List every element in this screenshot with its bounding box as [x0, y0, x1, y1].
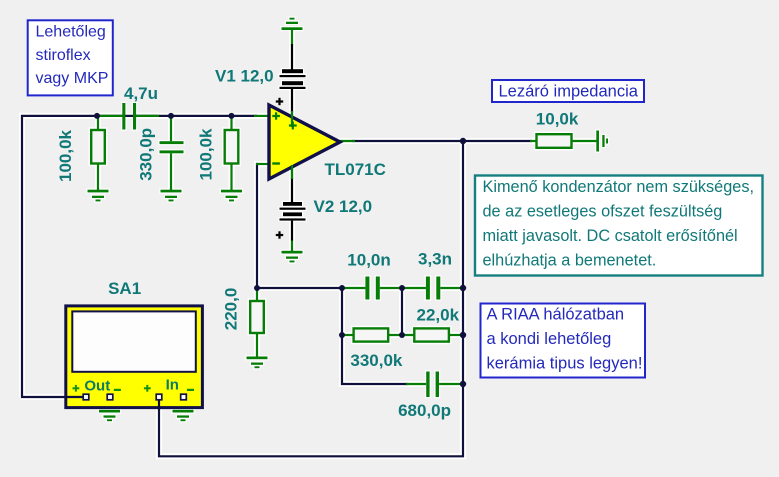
- ground below SA1 Out: [99, 410, 120, 421]
- capacitor C2 330,0p: [160, 141, 184, 153]
- note box 4 (A RIAA hálózatban...): [481, 304, 646, 378]
- wire green C2 stubs: [170, 116, 172, 141]
- svg-text:22,0k: 22,0k: [417, 306, 460, 325]
- svg-text:TL071C: TL071C: [325, 160, 386, 179]
- svg-text:SA1: SA1: [108, 279, 141, 298]
- wire out+ horizontal: [21, 396, 83, 398]
- resistor R6 10,0k: [537, 134, 572, 148]
- svg-text:A RIAA hálózatban: A RIAA hálózatban: [487, 306, 625, 324]
- wire in+ inside SA1: [158, 397, 160, 410]
- resistor R1 100,0k: [91, 130, 105, 164]
- capacitor C1 4,7u: [122, 103, 136, 130]
- wire inverting input vertical: [257, 164, 258, 288]
- note box 3 (Kimenő kondenzátor...): [475, 176, 763, 276]
- SA1 out- mark: [114, 389, 121, 391]
- ground top of V1 (inverted): [282, 18, 303, 30]
- wire green R3 stubs: [256, 288, 258, 301]
- wire green V2 ground stub: [291, 240, 293, 252]
- wire green op-amp +input stub: [254, 115, 270, 117]
- ground below R1: [88, 190, 109, 202]
- wire green R4 stubs: [342, 334, 354, 336]
- op-amp +input mark: [272, 112, 280, 119]
- wire green R1 stubs: [97, 116, 99, 130]
- SA1 in- mark: [187, 389, 194, 391]
- svg-text:V1 12,0: V1 12,0: [215, 67, 274, 86]
- svg-text:miatt javasolt. DC csatolt erő: miatt javasolt. DC csatolt erősítőnél: [483, 227, 738, 245]
- wire green C1 left stub: [97, 115, 122, 117]
- wire green C1 right stub: [136, 115, 159, 117]
- op-amp V+ mark: [289, 122, 297, 130]
- wire green R2 stubs: [230, 116, 232, 130]
- svg-text:330,0p: 330,0p: [136, 128, 155, 181]
- battery V1 plus mark: [276, 98, 283, 105]
- wire black V2 upper: [291, 178, 293, 202]
- wire black V1 upper: [291, 44, 293, 70]
- svg-text:4,7u: 4,7u: [124, 84, 158, 103]
- capacitor C3 10,0n: [365, 277, 379, 300]
- ground below C2: [161, 190, 182, 202]
- battery V2 12,0: [280, 202, 306, 221]
- wire green V+ pin: [291, 111, 293, 127]
- wire halo underlay: [21, 18, 608, 457]
- svg-text:elhúzhatja a bemenetet.: elhúzhatja a bemenetet.: [483, 252, 657, 270]
- op-amp V- pin over triangle: [291, 165, 293, 179]
- svg-text:10,0k: 10,0k: [536, 110, 579, 129]
- svg-text:Out: Out: [84, 377, 110, 394]
- wire in+ to bottom: [159, 141, 463, 456]
- ground below SA1 In: [173, 410, 194, 421]
- ground right of R6 (rotated): [596, 131, 608, 152]
- SA1 terminal out+: [83, 394, 89, 400]
- svg-text:de az esetleges ofszet feszült: de az esetleges ofszet feszültség: [483, 203, 723, 221]
- resistor R2 100,0k: [225, 130, 239, 164]
- svg-text:Kimenő kondenzátor nem szükség: Kimenő kondenzátor nem szükséges,: [483, 178, 755, 196]
- SA1 terminal in+: [156, 394, 162, 400]
- svg-text:10,0n: 10,0n: [347, 251, 390, 270]
- wire green op-amp output stub: [338, 140, 355, 142]
- capacitor C4 3,3n: [426, 277, 440, 300]
- svg-text:680,0p: 680,0p: [398, 401, 451, 420]
- resistor R5 22,0k: [414, 328, 449, 341]
- svg-text:220,0: 220,0: [222, 288, 241, 331]
- battery V2 plus mark: [276, 231, 283, 238]
- wire main input horizontal: [22, 116, 257, 397]
- svg-text:vagy MKP: vagy MKP: [36, 70, 109, 87]
- resistor R3 220,0: [250, 301, 264, 333]
- wire green V1 top stub: [291, 29, 293, 46]
- wire green op-amp -input stub: [256, 163, 270, 165]
- svg-text:Lezáró impedancia: Lezáró impedancia: [499, 82, 639, 100]
- op-amp V+ pin over triangle: [291, 111, 293, 127]
- svg-text:100,0k: 100,0k: [196, 128, 215, 181]
- capacitor C5 680,0p: [426, 372, 439, 398]
- resistor R4 330,0k: [354, 328, 389, 341]
- wire green R6 stubs: [530, 140, 537, 142]
- wire green C3 stubs: [342, 287, 365, 289]
- note box 1 (Lehetőleg stiroflex vagy MKP): [28, 20, 113, 95]
- svg-text:kerámia tipus legyen!: kerámia tipus legyen!: [487, 355, 643, 373]
- resistor glow underlays: [89, 127, 575, 344]
- wire feedback left vertical: [342, 288, 408, 384]
- SA1 terminal in-: [181, 394, 187, 400]
- wire green C4 stubs: [402, 287, 426, 289]
- SA1 instrument box: [66, 306, 203, 408]
- svg-text:In: In: [166, 377, 179, 394]
- SA1 screen: [72, 311, 196, 371]
- wire green R5 stub: [449, 334, 463, 336]
- op-amp U1 TL071C: [269, 105, 340, 179]
- svg-text:3,3n: 3,3n: [418, 250, 452, 269]
- svg-text:Lehetőleg: Lehetőleg: [36, 23, 106, 40]
- svg-text:a kondi lehetőleg: a kondi lehetőleg: [487, 330, 612, 348]
- svg-text:330,0k: 330,0k: [350, 351, 403, 370]
- ground below R2: [221, 190, 242, 202]
- wire black V2 lower: [291, 221, 293, 241]
- wire green C5 stubs: [406, 383, 426, 385]
- SA1 in+ mark: [144, 385, 151, 392]
- battery V1 12,0: [280, 69, 306, 89]
- op-amp -input mark: [272, 162, 280, 164]
- svg-text:100,0k: 100,0k: [56, 129, 75, 182]
- wire out+ inside SA1: [64, 396, 86, 398]
- junction node dots: [94, 113, 466, 387]
- wire green V- pin: [291, 165, 293, 179]
- wire feedback middle vertical: [401, 288, 403, 335]
- SA1 out+ mark: [73, 385, 80, 392]
- wire feedback top horizontal: [257, 287, 344, 289]
- ground below V2: [282, 251, 303, 263]
- wire black V1 lower: [291, 89, 293, 112]
- svg-text:V2 12,0: V2 12,0: [314, 197, 373, 216]
- SA1 terminal out-: [107, 394, 113, 400]
- note box 2 (Lezáró impedancia): [492, 80, 644, 102]
- wire output horizontal: [352, 140, 532, 142]
- component glow underlays: [282, 18, 303, 30]
- svg-text:stiroflex: stiroflex: [36, 47, 91, 64]
- ground below R3 220: [247, 357, 268, 369]
